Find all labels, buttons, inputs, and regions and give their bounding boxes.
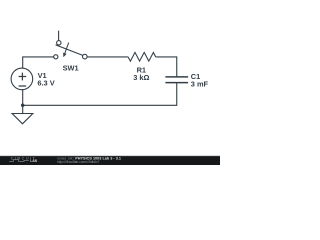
wire: V1 top to switch left throw xyxy=(23,57,54,68)
capacitor C1 bottom plate xyxy=(165,82,188,84)
switch SW1 top throw stub xyxy=(58,31,60,41)
V1 plus sign xyxy=(19,73,27,81)
svg-text:http://circuitlab.com/c/9dk6v7: http://circuitlab.com/c/9dk6v7 xyxy=(57,160,100,164)
wire: switch common to resistor R1 xyxy=(87,56,128,58)
resistor R1 zigzag xyxy=(128,52,156,61)
switch SW1 common terminal circle xyxy=(83,54,88,59)
svg-text:SW1: SW1 xyxy=(63,63,79,72)
svg-text:LAB: LAB xyxy=(30,159,37,163)
ground xyxy=(12,114,33,124)
capacitor C1 top plate xyxy=(165,76,188,78)
wire: V1 bottom through node A to ground xyxy=(22,90,24,114)
switch SW1 lever xyxy=(56,45,83,56)
switch SW1 left throw terminal circle xyxy=(54,55,58,59)
wire: capacitor C1 bottom to node A (bottom rail) xyxy=(23,83,177,106)
footer bar top light edge xyxy=(0,154,220,157)
switch SW1 actuation arrow shaft xyxy=(65,43,69,54)
voltage source V1 circle xyxy=(11,68,33,90)
footer black bar xyxy=(0,156,220,165)
CircuitLab logo waveform xyxy=(9,160,29,162)
svg-text:3 kΩ: 3 kΩ xyxy=(133,73,149,82)
V1 minus sign xyxy=(19,85,27,87)
svg-text:6.3 V: 6.3 V xyxy=(37,78,54,87)
switch SW1 arrow head xyxy=(63,53,67,58)
switch SW1 top throw terminal circle xyxy=(57,41,61,45)
wire: resistor R1 to capacitor C1 top xyxy=(156,57,177,77)
node A junction dot xyxy=(21,104,25,108)
svg-text:3 mF: 3 mF xyxy=(191,79,209,88)
